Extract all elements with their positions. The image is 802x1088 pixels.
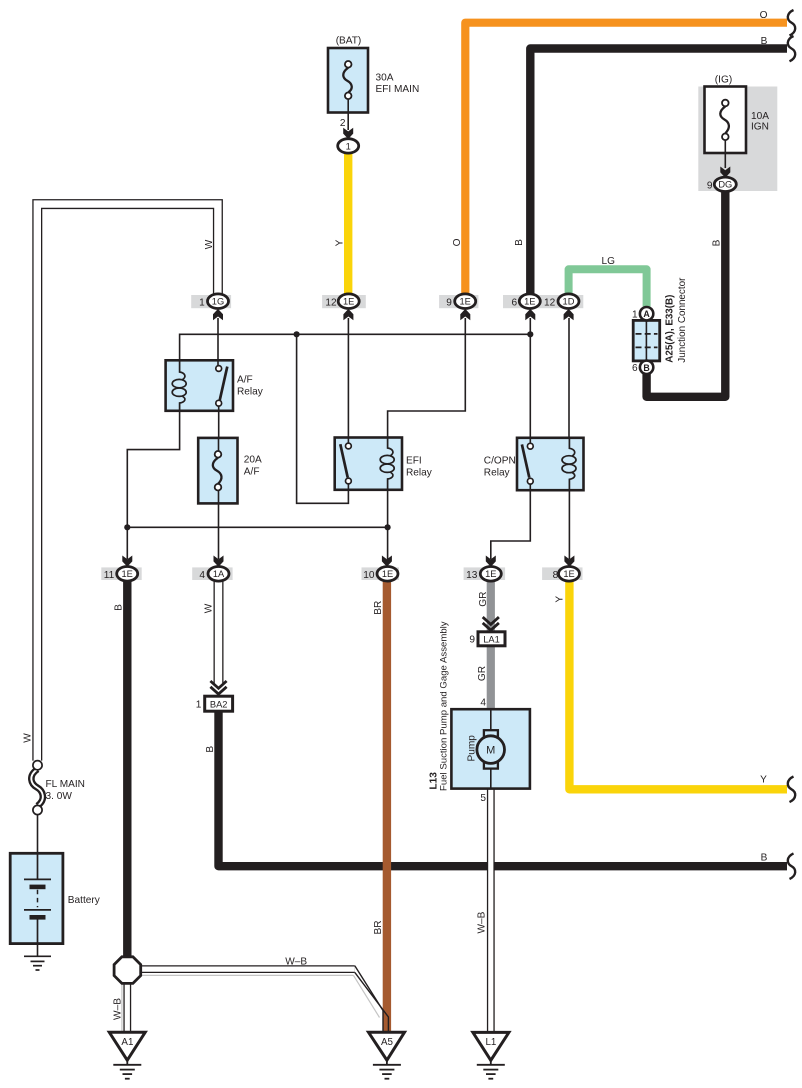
relay C/OPN: [517, 438, 584, 490]
wire dot to 11 1E: [126, 527, 128, 559]
svg-text:3. 0W: 3. 0W: [46, 791, 73, 802]
svg-text:1E: 1E: [122, 569, 133, 579]
svg-text:FL MAIN: FL MAIN: [46, 779, 85, 790]
svg-text:B: B: [711, 239, 722, 246]
fuse 10A IGN (IG): [705, 87, 747, 154]
svg-text:12: 12: [544, 297, 556, 308]
relay EFI: [335, 438, 402, 490]
svg-text:2: 2: [340, 118, 346, 129]
svg-text:6: 6: [632, 363, 638, 374]
junction connector A25(A) E33(B): [633, 320, 660, 361]
svg-text:BA2: BA2: [210, 699, 228, 709]
ground symbol L1: [477, 1060, 505, 1079]
wire FL MAIN to battery: [37, 815, 39, 854]
svg-text:M: M: [486, 745, 495, 757]
wire B black from BA2 down and right to edge: [219, 711, 788, 867]
break squiggle wire B right edge top: [788, 36, 795, 61]
svg-text:8: 8: [553, 570, 559, 581]
svg-text:B: B: [643, 363, 649, 373]
wire stub into fuse 20A top circle: [218, 438, 220, 451]
svg-text:10: 10: [363, 570, 375, 581]
wire W-B diagonal lines onto brown wire to A5: [355, 966, 383, 1033]
svg-text:W: W: [203, 603, 214, 613]
svg-text:W–B: W–B: [113, 998, 124, 1020]
svg-text:A/F: A/F: [244, 467, 260, 478]
ground triangle L1: [473, 1032, 509, 1060]
wire pump motor to pin 5 internal: [490, 768, 492, 789]
svg-text:BR: BR: [373, 920, 384, 934]
svg-text:1G: 1G: [212, 297, 224, 307]
svg-text:20A: 20A: [244, 455, 262, 466]
svg-text:LA1: LA1: [483, 634, 500, 644]
oval connector DG below fuse IGN: [714, 177, 736, 191]
octagon junction of ground wires: [114, 957, 141, 984]
connector LA1: [478, 632, 505, 646]
svg-text:Y: Y: [760, 775, 767, 786]
svg-text:1E: 1E: [524, 297, 535, 307]
wire W-B from pump pin 5 down to ground L1: [487, 788, 495, 1033]
wire stub A/F relay switch bottom to box edge: [218, 406, 220, 411]
wire bus from A/F relay coil to C/OPN relay column: [180, 334, 531, 371]
svg-text:1E: 1E: [343, 297, 354, 307]
svg-text:1E: 1E: [485, 569, 496, 579]
wire 12 1E to EFI relay switch: [347, 318, 349, 443]
wire BR brown from 10 1E down to ground A5: [383, 580, 391, 1033]
svg-text:W–B: W–B: [477, 911, 488, 933]
gray shadow line of W-B horizontal: [142, 974, 354, 976]
svg-text:A5: A5: [381, 1037, 394, 1048]
svg-text:LG: LG: [602, 256, 616, 267]
svg-text:B: B: [205, 746, 216, 753]
wire EFI relay switch bottom loop to bus: [297, 335, 349, 503]
svg-text:BR: BR: [373, 601, 384, 615]
svg-text:B: B: [761, 36, 768, 47]
svg-text:13: 13: [466, 570, 478, 581]
ground symbol A5: [373, 1060, 401, 1079]
oval connector 9 1E: [455, 294, 476, 309]
oval connector 6 1E: [519, 294, 540, 309]
arrow down into oval 13 1E: [486, 556, 496, 567]
wire stub EFI relay switch bottom to box edge: [347, 484, 349, 490]
lower bus wire between coil returns: [127, 526, 387, 528]
svg-text:A25(A), E33(B): A25(A), E33(B): [664, 295, 675, 363]
svg-text:GR: GR: [478, 592, 489, 607]
gray label strip connector 11 1E row2: [101, 567, 141, 580]
svg-text:11: 11: [104, 570, 115, 581]
wire C/OPN relay switch bottom to 13 1E: [491, 478, 531, 560]
svg-text:Fuel Suction Pump and Gage Ass: Fuel Suction Pump and Gage Assembly: [438, 621, 449, 791]
arrow into oval DG: [720, 167, 730, 178]
wire stub fuse IGN bottom circle to box edge: [724, 140, 726, 153]
fusible link FL MAIN: [31, 761, 43, 815]
chevron pair on gray wire above LA1: [483, 617, 499, 630]
junction connector terminal B: [640, 361, 653, 374]
svg-text:C/OPN: C/OPN: [484, 455, 516, 466]
arrow down into oval 4 1A: [214, 556, 224, 567]
wire A/F relay switch to fuse 20A: [218, 400, 220, 438]
wire stub into C/OPN relay switch: [529, 438, 531, 444]
wire W white outlined from 1G up left and down to FL MAIN: [37, 204, 218, 761]
arrow up into oval 1G: [213, 309, 223, 320]
wire stub fuse 20A bottom circle to box edge: [218, 490, 220, 503]
wire stub into A/F relay switch: [217, 360, 219, 365]
wire GR gray from 13 1E down to LA1: [487, 580, 495, 632]
arrow down into oval 10 1E: [382, 556, 392, 567]
svg-text:9: 9: [446, 297, 452, 308]
svg-text:Relay: Relay: [406, 467, 433, 478]
ground triangle A5: [369, 1032, 405, 1060]
svg-text:IGN: IGN: [751, 122, 769, 133]
wire fuse IGN pin 9 to oval DG: [724, 153, 726, 168]
junction dot lower bus left: [124, 524, 130, 530]
svg-text:A/F: A/F: [237, 374, 253, 385]
oval connector 1G: [208, 294, 229, 309]
gray label strip connector 12 1E row1: [322, 295, 366, 308]
junction dot lower bus right: [385, 524, 391, 530]
ground symbol below battery: [24, 956, 51, 970]
wire C/OPN relay coil bottom to 8 1E: [568, 478, 570, 560]
wire Y yellow from 8 1E down and right to edge: [569, 580, 787, 789]
break squiggle wire B right edge bottom: [788, 853, 795, 879]
gray label strip connector 4 1A row2: [192, 567, 232, 580]
svg-text:B: B: [761, 852, 768, 863]
svg-text:DG: DG: [718, 180, 732, 190]
arrow up into oval 12 1D: [564, 309, 574, 320]
gray label strip connector 1G row1: [191, 295, 231, 308]
svg-text:Relay: Relay: [237, 386, 264, 397]
svg-text:1A: 1A: [213, 569, 225, 579]
svg-text:O: O: [760, 10, 768, 21]
svg-text:GR: GR: [477, 666, 488, 681]
battery: [10, 853, 63, 943]
gray label strip connector 10 1E row2: [362, 567, 400, 580]
wire 6 1E through bus dot to C/OPN relay switch: [529, 318, 531, 443]
svg-text:Battery: Battery: [68, 895, 101, 906]
wire W-B from octagon down to ground A1: [123, 984, 131, 1034]
wire stub pump pin 4 to motor brush: [490, 709, 492, 730]
break squiggle wire O right edge: [788, 10, 795, 36]
wire stub C/OPN relay switch bottom to box edge: [529, 484, 531, 490]
svg-text:(BAT): (BAT): [336, 36, 362, 47]
svg-text:EFI MAIN: EFI MAIN: [376, 84, 420, 95]
oval connector 4 1A: [208, 567, 229, 582]
wire GR gray from LA1 down to pump pin 4: [487, 645, 495, 710]
svg-text:30A: 30A: [376, 73, 394, 84]
wire stub into EFI relay switch: [347, 438, 349, 444]
svg-text:1E: 1E: [460, 297, 471, 307]
svg-text:EFI: EFI: [406, 455, 422, 466]
wire O orange battery feed, top: [465, 23, 787, 295]
connector BA2: [205, 696, 233, 711]
arrow up into oval 9 1E: [460, 309, 470, 320]
svg-text:W–B: W–B: [285, 957, 307, 968]
pump motor brush top: [484, 730, 498, 737]
break squiggle wire Y right edge: [788, 777, 795, 803]
wire A/F relay coil bottom to lower bus: [127, 399, 179, 529]
oval connector 10 1E: [377, 567, 398, 582]
wire battery to ground: [37, 944, 39, 957]
svg-text:1: 1: [199, 297, 205, 308]
wire fuse EFI MAIN pin 2 to oval 1: [347, 113, 349, 131]
pump motor brush bottom: [484, 762, 498, 769]
gray label strip connector 9 1E row1: [439, 295, 478, 308]
wire Y yellow from fuse EFI MAIN oval 1 to 12 1E: [344, 153, 352, 296]
fuse 30A EFI MAIN (BAT): [328, 48, 368, 113]
relay A/F: [166, 360, 233, 411]
wire LG light green 1D to junction connector A: [569, 269, 647, 308]
arrow into oval 1: [343, 128, 353, 139]
ground triangle A1: [109, 1032, 145, 1060]
oval connector 11 1E: [117, 567, 138, 582]
gray shadow line of W-B diagonal: [354, 975, 380, 1017]
wire W-B from octagon right toward ground A5, horizontal part: [142, 965, 355, 973]
wire 1G to A/F relay switch: [217, 318, 219, 365]
svg-text:9: 9: [469, 635, 475, 646]
svg-text:1: 1: [196, 700, 202, 711]
junction dot on bus at EFI switch return: [294, 331, 300, 337]
fuel suction pump and gage assembly L13 box: [451, 709, 530, 788]
wire B black from DG fuse IGN down to junction connector B: [647, 191, 726, 397]
svg-text:Y: Y: [334, 239, 345, 246]
svg-text:W: W: [22, 733, 33, 743]
oval connector 13 1E: [480, 567, 501, 582]
svg-text:4: 4: [480, 698, 486, 709]
svg-text:1D: 1D: [563, 297, 575, 307]
chevron pair on white wire above BA2: [210, 681, 226, 694]
svg-text:9: 9: [707, 180, 713, 191]
wire W white outlined from 4 1A down to chevron BA2: [214, 580, 224, 683]
svg-text:W: W: [204, 239, 215, 249]
svg-text:12: 12: [325, 297, 337, 308]
wire B black top feed to 6 1E: [530, 49, 787, 296]
fuse 20A A/F: [198, 438, 237, 504]
oval connector 8 1E: [559, 567, 580, 582]
svg-text:Junction Connector: Junction Connector: [677, 277, 688, 363]
svg-text:B: B: [514, 239, 525, 246]
svg-text:O: O: [452, 238, 463, 246]
svg-text:1E: 1E: [382, 569, 393, 579]
svg-text:A1: A1: [121, 1037, 133, 1048]
oval connector 1 below fuse EFI MAIN: [338, 139, 359, 153]
svg-text:6: 6: [511, 297, 517, 308]
junction connector terminal A: [640, 307, 653, 320]
wire EFI relay coil bottom to dot and 10 1E: [387, 478, 389, 560]
svg-text:Pump: Pump: [466, 735, 477, 762]
svg-text:Relay: Relay: [484, 467, 511, 478]
wire pump pin 4 internal: [490, 710, 492, 731]
svg-text:10A: 10A: [751, 111, 769, 122]
gray background behind IG fuse: [698, 87, 777, 192]
oval connector 12 1E: [338, 294, 359, 309]
arrow up into oval 12 1E: [343, 309, 353, 320]
svg-text:1E: 1E: [563, 569, 574, 579]
svg-text:Y: Y: [554, 596, 565, 603]
gray shadow line of W-B to A1: [121, 984, 123, 1033]
wire stub fuse EFI MAIN bottom circle to box edge: [347, 99, 349, 113]
svg-text:4: 4: [199, 570, 205, 581]
svg-text:1: 1: [346, 141, 351, 151]
wire 9 1E down left to EFI relay coil: [388, 318, 466, 439]
gray label strip connector 13 1E row2: [464, 567, 506, 580]
ground symbol A1: [113, 1060, 141, 1079]
wire fuse 20A to 4 1A: [218, 503, 220, 559]
arrow up into oval 6 1E: [525, 309, 535, 320]
gray label strip connector 8 1E row2: [542, 567, 582, 580]
svg-text:5: 5: [480, 793, 486, 804]
svg-text:(IG): (IG): [715, 75, 732, 86]
oval connector 12 1D: [558, 294, 579, 309]
arrow down into oval 8 1E: [564, 556, 574, 567]
wire stub pump motor brush to pin 5: [490, 768, 492, 788]
svg-text:L1: L1: [485, 1037, 496, 1048]
internal wire stubs inside component boxes: [218, 99, 725, 788]
gray label strip connectors 6 1E and 12 1D row1: [503, 295, 583, 308]
svg-text:B: B: [114, 604, 125, 611]
wire 12 1D to C/OPN relay coil: [568, 318, 570, 450]
pump motor M circle: [477, 736, 505, 764]
arrow down into oval 11 1E: [122, 556, 132, 567]
svg-text:1: 1: [632, 309, 638, 320]
svg-text:A: A: [643, 309, 650, 319]
wire B black from 11 1E down to octagon junction: [123, 580, 131, 958]
junction dot on bus at C/OPN column: [527, 331, 533, 337]
